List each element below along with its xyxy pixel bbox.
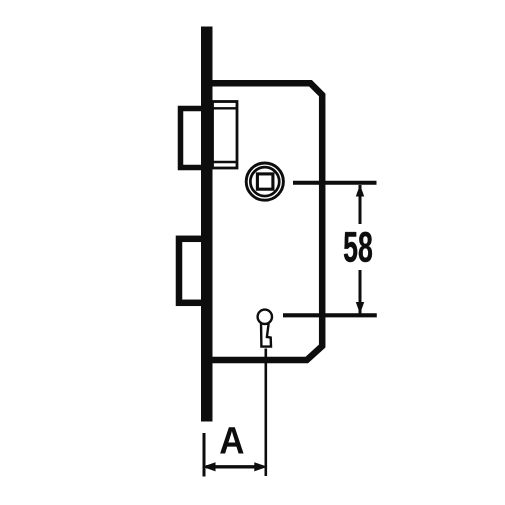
faceplate bar (201, 27, 213, 422)
dimension text A (219, 419, 244, 462)
keyhole circle (258, 310, 272, 324)
dimension 58 lower arrowhead (356, 302, 364, 314)
dimension 58 upper arrowhead (356, 185, 364, 197)
keyhole stem (261, 321, 271, 347)
A dimension right arrowhead (254, 462, 267, 471)
svg-text:A: A (219, 419, 244, 462)
spindle square hole (257, 174, 273, 189)
spindle hub outer circle (246, 163, 283, 200)
deadbolt head (left of faceplate) (179, 239, 207, 303)
lock body outline (212, 83, 322, 360)
spindle hub inner circle (250, 167, 279, 196)
A dimension left extension line (203, 433, 206, 477)
keyhole vertical center line drop (264, 349, 267, 477)
keyhole center line (283, 313, 377, 317)
dimension 58 upper line (359, 185, 362, 224)
A dimension line (206, 465, 263, 468)
latch bolt head (left of faceplate) (181, 109, 208, 168)
latch bolt bevel line bottom (213, 161, 238, 163)
spindle center line (293, 181, 377, 185)
A dimension left arrowhead (203, 462, 216, 471)
svg-text:58: 58 (343, 223, 373, 271)
latch bolt bevel line top (213, 107, 238, 109)
dimension 58 lower line (359, 270, 362, 314)
latch bolt body (inside case) (213, 102, 238, 169)
dimension text 58 (343, 223, 373, 271)
